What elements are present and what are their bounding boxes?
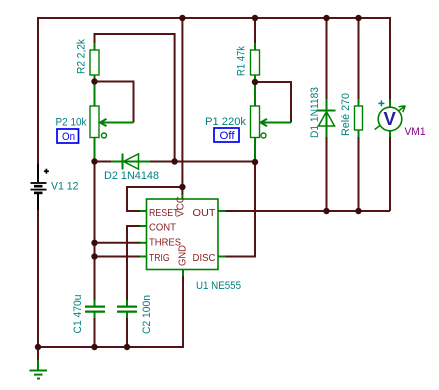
svg-text:VM1: VM1 xyxy=(405,126,426,138)
node P2 bottom / D2 anode xyxy=(91,158,97,164)
node rail D1 xyxy=(323,15,329,21)
svg-text:THRES: THRES xyxy=(149,237,181,248)
wire R2 top loop xyxy=(95,34,175,162)
relay coil xyxy=(355,99,363,137)
On box xyxy=(57,129,79,143)
svg-text:GND: GND xyxy=(178,245,189,266)
svg-text:RESET: RESET xyxy=(149,208,179,219)
svg-text:V1 12: V1 12 xyxy=(51,180,79,192)
voltmeter VM1 xyxy=(375,99,406,137)
capacitor C2 xyxy=(117,300,137,318)
wire D1 top drop xyxy=(326,18,328,100)
node P1 bottom xyxy=(252,159,258,165)
Off box xyxy=(214,128,239,142)
wire relay top drop xyxy=(358,18,360,100)
wire RESET branch xyxy=(127,187,182,211)
svg-text:DISC: DISC xyxy=(193,253,216,264)
wire GND pin vertical xyxy=(182,276,184,348)
svg-text:OUT: OUT xyxy=(193,208,216,219)
resistor R1 xyxy=(251,43,260,82)
wire left vertical from rail to battery xyxy=(37,17,39,165)
svg-text:D2 1N4148: D2 1N4148 xyxy=(104,170,159,182)
wire relay bottom xyxy=(358,136,360,211)
svg-text:P2 10k: P2 10k xyxy=(56,117,87,129)
wire R1 drop from rail xyxy=(254,18,256,44)
battery plus sign xyxy=(44,169,49,174)
node C1 bottom xyxy=(91,344,97,350)
wire C1 bottom xyxy=(94,317,96,347)
potentiometer P2 xyxy=(90,82,134,162)
op-amp U1 NE555 box xyxy=(147,199,219,270)
voltmeter plus sign xyxy=(378,100,384,106)
node OUT relay xyxy=(355,208,361,214)
svg-text:P1 220k: P1 220k xyxy=(205,116,246,128)
node R1 bottom xyxy=(252,79,258,85)
diode D1 xyxy=(317,99,336,137)
node D2 cathode xyxy=(171,158,177,164)
svg-text:C1 470u: C1 470u xyxy=(72,295,84,334)
svg-text:On: On xyxy=(62,131,75,143)
node TRIG tap xyxy=(91,253,97,259)
pin stub DISC xyxy=(218,256,226,258)
diode D2 xyxy=(111,154,150,170)
wire C2 bottom xyxy=(126,317,128,347)
pin stub RESET xyxy=(140,210,147,212)
svg-text:CONT: CONT xyxy=(149,222,176,233)
pin stub THRES xyxy=(140,242,147,244)
node rail relay xyxy=(355,15,361,21)
wire VCC drop from rail xyxy=(181,18,183,195)
potentiometer P1 xyxy=(251,82,292,162)
wire D2 node to P1 bottom xyxy=(95,161,112,163)
wire top rail xyxy=(38,17,390,19)
wire left vertical battery to ground junction xyxy=(37,209,39,347)
pin stub OUT xyxy=(218,210,226,212)
svg-text:Off: Off xyxy=(220,130,236,142)
wire TRIG pin xyxy=(95,256,142,258)
node OUT D1 xyxy=(323,208,329,214)
node rail R1 xyxy=(252,15,258,21)
wire CONT to C2 xyxy=(127,226,141,301)
wire voltmeter bottom xyxy=(389,137,391,211)
svg-text:V: V xyxy=(384,108,397,129)
svg-text:R1 47k: R1 47k xyxy=(236,46,248,76)
resistor R2 xyxy=(90,43,99,82)
capacitor C1 xyxy=(85,300,105,318)
wire THRES pin xyxy=(95,242,142,244)
wire node THRES/TRIG vertical xyxy=(94,162,96,302)
wire P1 bottom to DISC xyxy=(225,162,256,257)
pin stub CONT xyxy=(140,225,147,227)
ground xyxy=(30,360,48,379)
svg-text:C2 100n: C2 100n xyxy=(141,295,153,334)
svg-text:R2 2,2k: R2 2,2k xyxy=(76,39,88,74)
wire voltmeter top drop xyxy=(389,17,391,100)
node junction dots xyxy=(35,15,362,350)
battery V1 xyxy=(31,164,47,210)
node R2 bottom xyxy=(91,78,97,84)
pin stub VCC xyxy=(181,195,183,200)
svg-text:D1 1N1183: D1 1N1183 xyxy=(309,87,321,138)
wire bottom rail xyxy=(38,346,184,348)
wire R1 bottom to P1 wiper xyxy=(255,82,291,123)
svg-text:U1 NE555: U1 NE555 xyxy=(196,280,241,292)
wire OUT line xyxy=(225,210,391,212)
wire D1 bottom xyxy=(326,136,328,211)
node VCC/RESET xyxy=(179,184,185,190)
node THRES tap xyxy=(91,240,97,246)
svg-text:Relé 270: Relé 270 xyxy=(340,93,352,136)
node ground junction xyxy=(35,344,41,350)
pin stub TRIG xyxy=(140,256,147,258)
pin stub GND xyxy=(182,270,184,277)
wire D2 right to DISC node xyxy=(150,161,256,163)
wire ground stub xyxy=(37,347,39,362)
svg-text:VCC: VCC xyxy=(176,196,187,217)
wire R2 bottom to P2 wiper xyxy=(95,82,134,123)
node rail VCC xyxy=(179,15,185,21)
node C2 bottom xyxy=(124,344,130,350)
svg-text:TRIG: TRIG xyxy=(149,253,170,264)
